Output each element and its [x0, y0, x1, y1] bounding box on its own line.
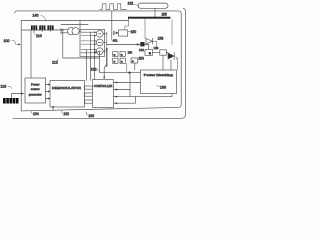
- right cluster cap c1: [145, 49, 152, 55]
- label 151: [128, 2, 140, 7]
- wire bar to diode: [144, 19, 146, 39]
- svg-text:158: 158: [158, 36, 164, 40]
- wire right edge of rf block: [171, 20, 173, 45]
- diode D2: [168, 53, 174, 60]
- svg-text:112: 112: [52, 60, 58, 64]
- label 112: [52, 59, 58, 65]
- label 150: [128, 30, 136, 34]
- svg-text:generator: generator: [29, 92, 42, 96]
- mixer M3: [96, 48, 103, 55]
- arrowhead y44.5: [137, 43, 140, 45]
- wire b5 down: [134, 63, 136, 70]
- right cluster cap c2: [160, 50, 167, 55]
- svg-text:152: 152: [91, 68, 97, 72]
- wire w4 elbow: [114, 97, 136, 104]
- svg-text:106: 106: [88, 114, 94, 118]
- svg-text:162: 162: [139, 48, 144, 52]
- svg-text:Power Matching: Power Matching: [144, 73, 174, 77]
- svg-text:DEMODULATOR: DEMODULATOR: [52, 86, 81, 90]
- svg-text:166: 166: [160, 85, 166, 89]
- label 166: [157, 85, 166, 89]
- label 152: [91, 68, 100, 72]
- node main module frame left: [21, 21, 128, 111]
- wire vertical x80 upper: [79, 21, 81, 30]
- svg-text:163: 163: [154, 46, 159, 50]
- component block F1: [31, 25, 37, 30]
- svg-text:102: 102: [63, 112, 69, 116]
- cap b4: [120, 58, 125, 63]
- dark blob: [140, 42, 144, 46]
- wire T1 inputs: [61, 28, 68, 34]
- svg-text:source: source: [31, 87, 40, 91]
- wires mixer inputs: [81, 32, 95, 53]
- label 151a: [111, 39, 118, 43]
- junction dots y58: [86, 57, 96, 59]
- arrow into regulator box: [115, 32, 117, 34]
- wire bus to power generator: [30, 30, 32, 78]
- svg-text:140: 140: [33, 14, 39, 18]
- cap b1: [113, 52, 118, 57]
- component block F2: [39, 25, 45, 30]
- waveform annotation: [100, 4, 127, 10]
- controller box: [93, 80, 114, 108]
- antenna pill 115: [138, 3, 168, 8]
- wire x177.5: [177, 58, 179, 70]
- wire x104 arrow down: [104, 65, 107, 78]
- power matching box: [141, 70, 177, 94]
- wire antenna loop inner turn top/right: [15, 11, 182, 111]
- wire x99.5 elbow: [100, 52, 141, 73]
- wire y44.5: [107, 44, 149, 46]
- wire pill to bar: [154, 9, 156, 17]
- svg-text:154: 154: [139, 56, 145, 60]
- wire bus right of mixer box: [106, 49, 108, 67]
- wire antenna loop outer turn: [13, 9, 186, 119]
- svg-text:104: 104: [33, 112, 39, 116]
- wires mixer outputs: [103, 34, 107, 51]
- mixer box: [80, 29, 105, 56]
- electrode bar: [128, 17, 171, 19]
- wire vertical x130: [129, 73, 131, 97]
- arrows power to demod: [46, 85, 49, 99]
- arrowheads mixer inputs: [94, 31, 96, 53]
- svg-text:Power: Power: [31, 82, 40, 86]
- svg-text:CONTROLLER: CONTROLLER: [94, 84, 113, 88]
- svg-text:118: 118: [1, 84, 7, 88]
- link stubs demod-controller: [85, 86, 93, 89]
- wire w3 long: [114, 94, 173, 97]
- wire diode to cap c2: [153, 41, 157, 50]
- label 164: [176, 56, 177, 59]
- cap b3: [120, 52, 125, 57]
- label 140: [33, 14, 46, 21]
- svg-text:151: 151: [128, 2, 134, 6]
- mixer M2: [96, 39, 103, 46]
- svg-text:150: 150: [131, 30, 137, 34]
- wire down w1: [85, 50, 87, 81]
- svg-text:150: 150: [128, 51, 133, 55]
- label 118: [1, 84, 12, 88]
- transformer T1: [68, 28, 80, 35]
- wire stubs under blocks: [34, 30, 50, 32]
- label 116: [34, 31, 42, 38]
- arrow into x94: [96, 51, 99, 53]
- wires right cluster: [149, 45, 171, 71]
- svg-text:100: 100: [4, 39, 10, 43]
- wire x126.8 down: [126, 63, 128, 72]
- cap b2: [113, 58, 118, 63]
- svg-text:153: 153: [162, 13, 168, 17]
- wire T1 output: [79, 30, 81, 32]
- demodulator box: [50, 81, 85, 108]
- regulator box 150: [119, 30, 128, 36]
- wire y58 horizontal: [63, 57, 100, 59]
- battery block: [3, 98, 19, 104]
- wire down w2: [90, 32, 92, 80]
- label 100: [4, 39, 21, 46]
- wire demod bottom stub: [52, 106, 54, 110]
- label 106: [86, 112, 94, 118]
- wire bar stub elbow: [125, 19, 129, 30]
- label 102: [61, 111, 69, 116]
- wire x62 vertical: [62, 30, 64, 58]
- capacitor C1 plates: [113, 31, 115, 35]
- label 104: [31, 111, 39, 116]
- wire battery to power box: [12, 94, 22, 98]
- wire w1 to power matching: [114, 82, 141, 84]
- wire down w3: [93, 35, 95, 80]
- mixer M1: [96, 30, 103, 37]
- diode D1: [146, 38, 153, 44]
- wire x112 from top: [111, 11, 113, 39]
- junction dot: [128, 72, 130, 74]
- power generator box: [25, 78, 46, 103]
- component block F3: [47, 25, 53, 30]
- inner analog box top line: [61, 24, 88, 26]
- wire input bus: [22, 29, 64, 31]
- wire w2 elbow: [114, 89, 131, 91]
- cap b5: [131, 58, 138, 63]
- svg-text:116: 116: [36, 34, 42, 38]
- svg-text:151: 151: [113, 39, 118, 43]
